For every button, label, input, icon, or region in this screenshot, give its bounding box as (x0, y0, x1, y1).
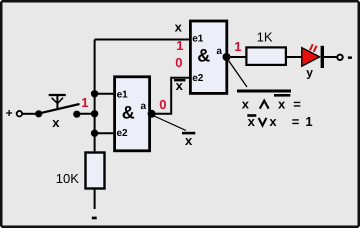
switch S1 throw contact dot (73, 111, 80, 118)
terminal - (right) (337, 55, 352, 60)
LED D1 cathode bar (321, 46, 324, 68)
switch S1 pole dot (35, 110, 42, 117)
svg-text:1: 1 (234, 39, 241, 54)
wire U2 out to U1 e2 (step) (152, 78, 190, 114)
formula overbar short (xbar) (274, 94, 290, 97)
svg-text:e1: e1 (192, 34, 204, 45)
resistor R1 body (246, 47, 286, 65)
svg-text:+: + (6, 106, 13, 120)
terminal + (plus input) (6, 106, 22, 120)
wire U1 out to R1 (227, 56, 247, 58)
svg-text:10K: 10K (56, 171, 79, 186)
svg-text:x: x (176, 78, 184, 93)
svg-text:x: x (269, 114, 277, 129)
resistor R2 body (10K) (86, 153, 105, 189)
svg-text:=: = (292, 114, 300, 129)
svg-text:e1: e1 (117, 89, 129, 100)
wire LED to terminal (324, 56, 337, 58)
svg-text:1: 1 (81, 95, 88, 110)
wire top to U1 e1 (95, 39, 190, 41)
svg-text:x: x (242, 97, 250, 112)
svg-text:y: y (306, 66, 313, 80)
and-gate U2 body (115, 77, 150, 151)
svg-text:x: x (278, 97, 286, 112)
switch S1 actuator (49, 95, 66, 109)
svg-text:x: x (175, 20, 183, 35)
svg-text:&: & (122, 103, 135, 123)
svg-text:0: 0 (175, 55, 182, 70)
LED D1 light rays (310, 44, 317, 52)
LED D1 triangle (302, 48, 320, 67)
and-gate U2 output dot (148, 110, 156, 118)
formula row2: xbar OR x = 1 (247, 114, 312, 129)
svg-text:x: x (248, 114, 256, 129)
junction e2 lower (91, 130, 98, 137)
svg-text:&: & (197, 46, 210, 66)
svg-text:1: 1 (305, 114, 312, 129)
svg-text:a: a (216, 46, 222, 57)
and-gate U1 output dot (223, 53, 231, 61)
switch S1 lever (39, 104, 80, 113)
wire terminal to switch (23, 113, 39, 115)
wire R2 to minus (94, 189, 96, 210)
junction e1 lower (91, 90, 98, 97)
formula overbar long (237, 90, 291, 93)
wire bus to U2 e2 (95, 132, 114, 134)
label xbar (below pointer) (182, 132, 195, 148)
pointer line U2 out to xbar label (153, 116, 186, 131)
terminal - (bottom) (92, 217, 97, 220)
svg-text:=: = (293, 97, 301, 112)
node bus vertical wire (94, 40, 96, 153)
svg-text:x: x (52, 115, 60, 130)
wire R1 to LED (286, 56, 302, 58)
label xbar (at U1 e2) (174, 78, 185, 93)
svg-text:1: 1 (176, 38, 183, 53)
svg-text:0: 0 (159, 97, 166, 112)
svg-text:a: a (141, 101, 147, 112)
svg-text:e2: e2 (117, 128, 129, 139)
svg-text:e2: e2 (192, 73, 204, 84)
and-gate U1 body (190, 21, 226, 93)
junction switch (91, 110, 98, 117)
wire bus to U2 e1 (95, 93, 114, 95)
formula row1: x AND xbar = (242, 97, 301, 112)
svg-text:1K: 1K (257, 29, 273, 44)
pointer line U1 out to formula (229, 61, 248, 88)
svg-text:x: x (185, 133, 193, 148)
wire switch to bus (77, 113, 95, 115)
